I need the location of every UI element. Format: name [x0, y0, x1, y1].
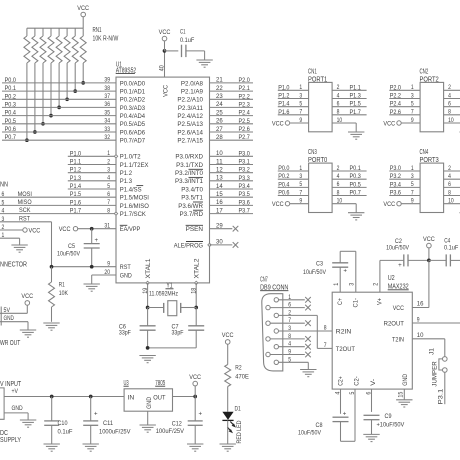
U1 pin name EA/VPP [120, 225, 141, 233]
svg-text:7: 7 [324, 342, 327, 349]
wire PORT0 pin 8 (P0.7) [332, 189, 367, 196]
svg-text:P1.5/MOSI: P1.5/MOSI [120, 195, 149, 202]
svg-text:5: 5 [411, 181, 414, 188]
wire node P1.0 to U1 pin 1 [68, 150, 116, 157]
svg-text:P0.3/AD3: P0.3/AD3 [120, 105, 145, 112]
op-amp U3 7805 voltage regulator [124, 380, 173, 411]
ground (U2 pin 15) [396, 400, 412, 407]
wire node P0.3 to U1 pin 36 [2, 101, 116, 108]
svg-text:P2.6/A14: P2.6/A14 [177, 129, 203, 136]
wire PORT0 pin 6 (P0.5) [332, 181, 367, 188]
U1 pin name P0.2/AD2 [120, 97, 145, 104]
svg-text:SUPPLY: SUPPLY [0, 437, 21, 444]
svg-text:33pF: 33pF [119, 330, 131, 337]
svg-text:11.0592MHz: 11.0592MHz [149, 290, 178, 297]
wire PORT1 pin 1 (P1.0) [278, 84, 309, 91]
wire PORT1 pin 7 (P1.6) [278, 109, 309, 116]
U2 internal label C2- (rotated) [353, 376, 360, 386]
svg-text:0.1uF: 0.1uF [444, 244, 458, 251]
svg-text:470E: 470E [235, 373, 249, 380]
svg-text:CN7: CN7 [260, 276, 268, 283]
wire U3 GND pin [147, 411, 149, 425]
ISP connector pin 2 [2, 224, 5, 231]
svg-text:OUT: OUT [153, 394, 165, 401]
svg-text:NNECTOR: NNECTOR [0, 262, 27, 269]
svg-text:GND: GND [120, 272, 132, 279]
svg-text:40: 40 [158, 65, 165, 71]
wire node P0.0 to U1 pin 39 [2, 77, 116, 84]
svg-text:C11: C11 [103, 420, 113, 427]
connector CN1 PORT1 [308, 69, 332, 132]
U1 pin name P1.5/MOSI [120, 195, 149, 202]
svg-text:J1: J1 [429, 348, 436, 355]
svg-text:VCC: VCC [383, 201, 395, 208]
crystal Y1 11.0592MHz [148, 283, 197, 316]
wire U1 pin 26 to node P2.5 [210, 118, 254, 125]
svg-text:1: 1 [411, 165, 414, 172]
svg-text:34: 34 [104, 118, 110, 125]
svg-text:XTAL1: XTAL1 [145, 258, 152, 278]
svg-text:6: 6 [448, 181, 451, 188]
svg-text:R2OUT: R2OUT [384, 320, 404, 327]
svg-text:P1.7: P1.7 [350, 109, 361, 116]
U1 pin name P1.2 [120, 170, 132, 177]
U1 internal label XTAL1 (rotated) [145, 258, 152, 278]
wire U2 pin 15 GND [397, 389, 404, 400]
svg-text:P0.1: P0.1 [5, 85, 16, 92]
U2 internal label V+ (rotated) [377, 298, 384, 305]
svg-text:6: 6 [288, 302, 291, 309]
svg-text:25: 25 [216, 109, 223, 116]
capacitor C1 0.1uF [165, 28, 205, 57]
svg-text:5: 5 [299, 101, 302, 108]
svg-text:P3.4: P3.4 [239, 183, 250, 190]
svg-text:P0.7: P0.7 [350, 190, 361, 197]
svg-text:P0.1/AD1: P0.1/AD1 [120, 89, 145, 96]
op-amp U2 MAX232 body [332, 275, 412, 389]
svg-text:C12: C12 [172, 421, 182, 428]
svg-text:P3.4: P3.4 [390, 181, 401, 188]
svg-text:P1.2: P1.2 [278, 93, 289, 100]
wire U1 pin 17 to node P3.7 [210, 207, 254, 214]
svg-text:T2OUT: T2OUT [336, 346, 355, 353]
wire U1 XTAL1 pin 19 [142, 281, 149, 307]
ground (U3) [140, 425, 156, 432]
svg-text:9: 9 [299, 198, 302, 205]
connector CN2 PORT2 [420, 69, 444, 132]
svg-text:P0.5: P0.5 [350, 181, 361, 188]
svg-text:P3.3/INT1: P3.3/INT1 [175, 178, 203, 185]
svg-text:RED LED: RED LED [236, 420, 243, 443]
wire node P1.7 to U1 pin 8 [0, 207, 116, 214]
U1 pin name P2.3/A11 [178, 105, 203, 112]
U2 internal label VCC [393, 305, 404, 312]
wire node P0.7 to U1 pin 32 [2, 134, 116, 141]
U1 pin 29 PSEN no-connect stub [210, 223, 239, 232]
svg-text:P2.0: P2.0 [390, 84, 401, 91]
capacitor C5 10uF/50V [57, 229, 100, 267]
U1 pin name P0.5/AD5 [120, 121, 145, 128]
U1 internal label VCC (rotated) [162, 85, 169, 97]
svg-text:2: 2 [448, 165, 451, 172]
capacitor C8 10uF/50V [298, 410, 349, 436]
svg-text:10: 10 [337, 198, 343, 205]
svg-text:P0.0: P0.0 [278, 165, 289, 172]
svg-text:33pF: 33pF [172, 330, 184, 337]
svg-text:6: 6 [107, 191, 110, 198]
power symbol VCC (U1 pin40) [159, 29, 171, 41]
svg-text:4: 4 [448, 92, 451, 99]
svg-text:CN2: CN2 [420, 69, 429, 76]
svg-text:C1: C1 [180, 28, 186, 35]
svg-text:P2.0/A8: P2.0/A8 [181, 80, 203, 87]
svg-text:9: 9 [107, 261, 110, 268]
svg-text:5V: 5V [4, 307, 11, 314]
wire U3 OUT to VCC [173, 396, 196, 398]
wire LED cathode to ground [227, 420, 229, 443]
net label 5V [4, 307, 11, 314]
wire PORT2 pin 7 (P2.6) [389, 109, 420, 116]
svg-text:10uF/50V: 10uF/50V [303, 269, 326, 276]
svg-text:5: 5 [349, 391, 356, 394]
svg-text:VCC: VCC [272, 201, 284, 208]
svg-text:U2: U2 [388, 275, 395, 282]
wire PORT1 pin 2 (P1.1) [332, 84, 367, 91]
svg-text:7: 7 [411, 189, 414, 196]
U1 pin name P3.6/WR [178, 202, 203, 210]
svg-text:1: 1 [288, 294, 291, 301]
svg-text:C10: C10 [58, 420, 68, 427]
ground (R1) [43, 323, 59, 330]
CN7 pin 4 [274, 345, 278, 349]
wire PORT3 pin 8 [444, 189, 460, 196]
svg-text:3: 3 [411, 92, 414, 99]
wire PORT3 pin 2 [444, 165, 460, 172]
U1 pin name P2.7/A15 [177, 138, 203, 145]
svg-text:WR OUT: WR OUT [0, 340, 21, 347]
svg-text:P2.3/A11: P2.3/A11 [178, 105, 203, 112]
junction node EA/C5 [90, 227, 94, 231]
CN7 pin 8 [266, 337, 270, 341]
label PWR OUT (cut) [0, 340, 21, 347]
svg-text:32: 32 [104, 134, 110, 141]
svg-text:NN: NN [0, 182, 8, 189]
svg-text:V+: V+ [377, 298, 384, 305]
resistor R2 470E [225, 344, 249, 411]
wire PORT2 pin 2 [444, 84, 460, 91]
U1 pin name P0.0/AD0 [120, 80, 145, 87]
CN7 pin 9 [266, 352, 270, 356]
CN7 pin 3 [274, 329, 278, 333]
wire PORT0 pin 3 (P0.2) [278, 173, 309, 180]
wire node P1.3 to U1 pin 4 [68, 175, 116, 182]
wire PORT2 pin 6 [444, 101, 460, 108]
svg-text:GND: GND [4, 315, 14, 322]
wire VCC junction to U2 pin 16 [412, 260, 429, 307]
svg-text:P3.6: P3.6 [239, 199, 250, 206]
svg-text:VCC: VCC [162, 85, 169, 97]
svg-text:10uF/50V: 10uF/50V [298, 430, 321, 437]
wire PORT0 pin 7 (P0.6) [278, 189, 309, 196]
svg-text:D1: D1 [235, 405, 241, 412]
svg-text:P3.5/T1: P3.5/T1 [181, 195, 203, 202]
wire U1 pin 25 to node P2.4 [210, 109, 254, 116]
svg-text:P0.7/AD7: P0.7/AD7 [120, 138, 145, 145]
junction node C10 [50, 395, 54, 399]
svg-text:SCK: SCK [19, 207, 31, 214]
wire CN7 pin 6 no-connect [270, 302, 311, 311]
svg-text:VCC: VCC [222, 332, 234, 339]
junction node C6 ground [146, 346, 150, 350]
wire C2 to VCC junction [408, 259, 429, 261]
wire RST net [0, 222, 52, 267]
CN7 pin 6 [266, 305, 270, 309]
svg-text:CN1: CN1 [308, 69, 317, 76]
svg-text:P3.0: P3.0 [390, 165, 401, 172]
svg-text:6: 6 [337, 181, 340, 188]
U1 pin name P1.6/MISO [120, 203, 149, 210]
svg-text:P0.2/AD2: P0.2/AD2 [120, 97, 145, 104]
capacitor C3 10uF/50V [303, 261, 348, 277]
net label +V [12, 388, 19, 395]
svg-text:P1.3: P1.3 [70, 175, 81, 182]
wire PORT1 pin 10 to ground [332, 117, 356, 132]
svg-text:MISO: MISO [18, 199, 32, 206]
svg-text:P2.1/A9: P2.1/A9 [181, 89, 203, 96]
svg-text:P1.0: P1.0 [278, 84, 289, 91]
wire U1 pin 28 to node P2.7 [210, 134, 254, 141]
U2 internal label GND (rotated) [402, 374, 409, 386]
svg-text:P1.3: P1.3 [120, 178, 132, 185]
U1 pin name P2.6/A14 [177, 129, 203, 136]
svg-text:CN3: CN3 [308, 149, 317, 156]
svg-text:P3.3: P3.3 [239, 175, 250, 182]
U1 pin name P2.5/A13 [177, 121, 203, 128]
wire U1 pin 10 to node P3.0 [210, 150, 254, 157]
net label GND (DC input) [12, 405, 23, 412]
svg-text:9: 9 [288, 349, 291, 356]
wire node P1.6 to U1 pin 7 [0, 199, 116, 206]
svg-text:26: 26 [216, 118, 223, 125]
svg-text:P1.1: P1.1 [350, 84, 361, 91]
svg-text:8: 8 [288, 333, 291, 340]
svg-text:16: 16 [417, 301, 424, 308]
ground (C1) [196, 60, 212, 67]
U1 pin name P3.3/INT1 [175, 177, 203, 185]
svg-text:9: 9 [417, 316, 420, 323]
svg-text:4: 4 [288, 341, 291, 348]
power symbol VCC (LED) [222, 332, 234, 344]
svg-text:EA/VPP: EA/VPP [120, 226, 141, 233]
jumper J1 [429, 348, 448, 373]
wire PORT1 pin 6 (P1.5) [332, 101, 367, 108]
svg-text:28: 28 [216, 134, 223, 141]
wire CN7 pin 4 no-connect [279, 341, 311, 350]
svg-text:7: 7 [411, 109, 414, 116]
junction node XTAL2/C7 [194, 306, 198, 310]
wire U1 pin 27 to node P2.6 [210, 126, 254, 133]
ISP connector pin 5 [2, 199, 5, 206]
capacitor C12 100uF/25V [156, 397, 203, 444]
svg-text:P2.2: P2.2 [239, 93, 250, 100]
svg-text:P1.5: P1.5 [70, 191, 81, 198]
svg-text:GND: GND [146, 397, 153, 409]
svg-text:R2IN: R2IN [336, 329, 352, 336]
U1 pin name RST [120, 264, 131, 271]
wire U1 pin 14 to node P3.4 [210, 183, 254, 190]
svg-text:5: 5 [107, 183, 110, 190]
svg-text:ALE/PROG: ALE/PROG [174, 242, 203, 249]
wire +V rail [4, 396, 124, 398]
wire RN1 common bus [27, 27, 83, 29]
wire U2 pin 6 V- [365, 389, 372, 412]
junction node VCC/C2/C4 [427, 259, 431, 263]
wire U1 pin 24 to node P2.3 [210, 101, 254, 108]
svg-text:10: 10 [216, 150, 223, 157]
svg-text:+: + [95, 237, 99, 244]
svg-text:P2.6: P2.6 [390, 109, 401, 116]
wire PORT2 pin 8 [444, 109, 460, 116]
svg-text:V-: V- [370, 379, 377, 386]
wire PORT0 pin 5 (P0.4) [278, 181, 309, 188]
power symbol VCC (PWR OUT) [21, 293, 33, 305]
svg-text:P0.6: P0.6 [5, 126, 16, 133]
net label MOSI [18, 191, 32, 198]
wire node P1.4 to U1 pin 5 [68, 183, 116, 190]
wire PORT2 pin 3 (P2.2) [389, 92, 420, 99]
wire GND output [0, 322, 28, 330]
svg-text:8: 8 [448, 189, 451, 196]
wire CN7 pin 2 to U2 T2OUT [279, 309, 333, 348]
U1 pin name P1.0/T2 [120, 154, 141, 161]
svg-text:R1: R1 [59, 282, 65, 289]
svg-text:27: 27 [216, 126, 223, 133]
svg-text:P3.0: P3.0 [239, 150, 250, 157]
svg-text:IN: IN [128, 394, 135, 401]
svg-text:P3.1/TXD: P3.1/TXD [176, 162, 203, 169]
wire U1 pin 23 to node P2.2 [210, 93, 254, 100]
svg-text:P1.6/MISO: P1.6/MISO [120, 203, 149, 210]
connector CN7 DB9 CONN [260, 276, 288, 371]
svg-text:P3.4/T0: P3.4/T0 [181, 186, 203, 193]
U2 pin 8 number [324, 325, 327, 332]
svg-text:P0.5/AD5: P0.5/AD5 [120, 121, 145, 128]
U2 internal label C2+ (rotated) [337, 376, 344, 386]
U1 pin name P2.2/A10 [177, 97, 203, 104]
svg-text:XTAL2: XTAL2 [194, 258, 201, 278]
svg-text:14: 14 [216, 183, 223, 190]
wire U1 pin 13 to node P3.3 [210, 175, 254, 182]
power symbol VCC (ISP) [23, 227, 41, 234]
junction node U3 out / C12 [193, 395, 197, 399]
svg-text:8: 8 [107, 207, 110, 214]
ground (C11) [83, 444, 99, 451]
wire PORT0 pin 1 (P0.0) [278, 165, 309, 172]
svg-text:0.1uF: 0.1uF [58, 428, 73, 435]
U2 pin 7 number [324, 342, 327, 349]
svg-text:P3.7: P3.7 [239, 208, 250, 215]
svg-text:P0.4: P0.4 [5, 110, 16, 117]
U1 pin name P0.4/AD4 [120, 113, 145, 120]
svg-text:2: 2 [337, 84, 340, 91]
wire PORT2 pin 1 (P2.0) [389, 84, 420, 91]
wire RST net to U1 pin 9 [52, 261, 117, 268]
connector CONN (ISP, cut at edge) [0, 182, 8, 189]
svg-text:P0.3: P0.3 [5, 101, 16, 108]
CN7 pin 1 [274, 298, 278, 302]
svg-text:10K R-N/W: 10K R-N/W [93, 36, 119, 43]
resistor R1 10K [49, 267, 69, 322]
wire U1 pin 12 to node P3.2 [210, 167, 254, 174]
capacitor C10 0.1uF [44, 397, 72, 444]
svg-text:P1.2: P1.2 [70, 167, 81, 174]
svg-text:4: 4 [337, 173, 340, 180]
wire PORT0 pin 2 (P0.1) [332, 165, 367, 172]
svg-text:9: 9 [411, 117, 414, 124]
wire PORT2 pin 10 to ground [444, 117, 460, 132]
svg-text:P0.4: P0.4 [278, 181, 289, 188]
wire to VCC symbol [194, 386, 196, 396]
net label SCK [19, 207, 31, 214]
wire PORT3 pin 3 (P3.2) [389, 173, 420, 180]
svg-text:33: 33 [104, 126, 110, 133]
ground (C9) [363, 434, 379, 441]
svg-text:5: 5 [299, 181, 302, 188]
svg-text:T2IN: T2IN [392, 336, 404, 343]
svg-text:P0.0/AD0: P0.0/AD0 [120, 80, 145, 87]
svg-text:9: 9 [411, 198, 414, 205]
U1 pin name P3.4/T0 [181, 186, 203, 193]
svg-text:4: 4 [107, 175, 110, 182]
wire U1 pin 16 to node P3.6 [210, 199, 254, 206]
wire VCC to RN1 common bus [82, 17, 84, 28]
svg-text:10: 10 [417, 332, 424, 339]
svg-text:VCC: VCC [383, 120, 395, 127]
svg-text:P1.0/T2: P1.0/T2 [120, 154, 141, 161]
svg-text:1: 1 [299, 165, 302, 172]
connector PWR OUT edge [0, 307, 2, 326]
svg-text:2: 2 [448, 84, 451, 91]
svg-text:9: 9 [299, 117, 302, 124]
svg-text:P3.6: P3.6 [390, 190, 401, 197]
wire U1 pin 15 to node P3.5 [210, 191, 254, 198]
svg-text:1: 1 [333, 282, 340, 285]
wire PORT1 pin 3 (P1.2) [278, 92, 309, 99]
ISP connector pin 6 [2, 191, 5, 198]
wire U2 pin 2 V+ [373, 260, 404, 292]
connector CN4 PORT3 [420, 149, 444, 212]
svg-text:1: 1 [411, 84, 414, 91]
svg-text:C+: C+ [337, 298, 344, 305]
wire CN7 pin 9 no-connect [270, 349, 311, 358]
ground (C10) [44, 444, 60, 451]
svg-text:P1.4: P1.4 [70, 183, 81, 190]
U1 pin name P3.5/T1 [181, 195, 203, 202]
svg-text:38: 38 [104, 85, 110, 92]
svg-text:3: 3 [348, 282, 355, 285]
svg-text:+10uF/50V: +10uF/50V [377, 422, 405, 429]
svg-text:24: 24 [216, 101, 223, 108]
svg-text:VCC: VCC [272, 120, 284, 127]
svg-text:3: 3 [299, 173, 302, 180]
svg-text:6: 6 [337, 101, 340, 108]
svg-text:P2.6: P2.6 [239, 126, 250, 133]
CN7 pin 7 [266, 321, 270, 325]
svg-text:4: 4 [334, 391, 341, 394]
svg-text:7: 7 [288, 317, 291, 324]
ground (LED) [220, 444, 236, 451]
wire node P1.2 to U1 pin 3 [68, 167, 116, 174]
